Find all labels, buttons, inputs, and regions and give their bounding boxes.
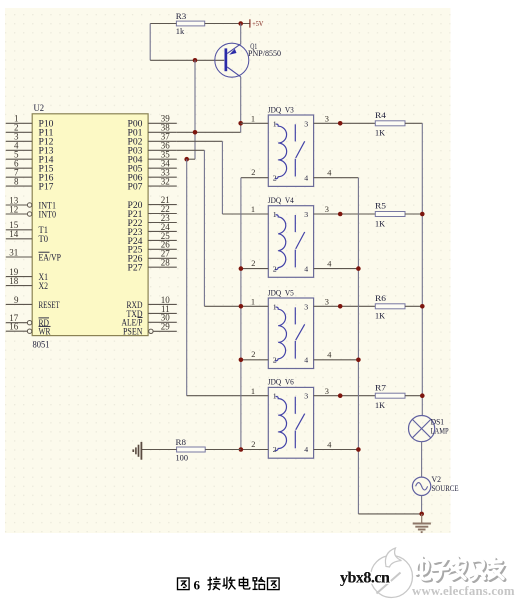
wire relay V5 pin 1 xyxy=(204,305,268,307)
U2 pin 14 stub wire xyxy=(6,238,32,240)
junction right bus at R5 xyxy=(420,212,425,217)
U2 pin 26 stub wire xyxy=(148,248,177,250)
svg-text:R4: R4 xyxy=(375,110,387,120)
U2 pin 27 stub wire xyxy=(148,257,177,259)
lamp DS1 X xyxy=(412,419,430,437)
caption char 收 xyxy=(223,577,236,590)
power +5V bar xyxy=(249,19,251,27)
relay V3 switch contact top xyxy=(294,124,296,141)
U2 pin 21 stub wire xyxy=(148,204,177,206)
relay V5 pin 3 wire xyxy=(314,305,376,307)
svg-text:3: 3 xyxy=(304,210,308,219)
svg-text:www.elecfans.com: www.elecfans.com xyxy=(412,584,515,598)
wire P04 net vertical down to relay V6 pin 1 xyxy=(186,159,188,396)
wire P01 branch vertical up to V3 pin1 junction xyxy=(240,123,242,132)
U2 pin 18 stub wire xyxy=(6,285,32,287)
ground symbol (left, signal ground) xyxy=(133,442,141,460)
U2 pin 7 stub wire xyxy=(6,176,32,178)
U2 pin 1 stub wire xyxy=(6,122,32,124)
wire P03 net extension xyxy=(177,149,205,151)
svg-text:P17: P17 xyxy=(39,183,54,193)
relay V6 switch contact top xyxy=(294,397,296,414)
watermark glyph 3 xyxy=(454,559,466,580)
wire R6 right xyxy=(405,305,422,307)
U2 pin 13 bubble xyxy=(27,203,31,207)
ybx8 logo slash xyxy=(377,573,401,594)
U2 pin 2 stub wire xyxy=(6,131,32,133)
wire right bus vertical xyxy=(421,123,423,415)
svg-text:3: 3 xyxy=(304,392,308,401)
svg-text:1k: 1k xyxy=(176,26,185,36)
relay V3 box xyxy=(268,115,313,186)
U2 pin 38 stub wire xyxy=(148,131,177,133)
svg-text:2: 2 xyxy=(273,445,277,454)
relay V6 pin 4 wire xyxy=(314,449,359,451)
svg-text:2: 2 xyxy=(251,350,255,359)
svg-text:29: 29 xyxy=(161,322,171,332)
svg-text:X2: X2 xyxy=(39,282,49,292)
U2 pin 11 stub wire xyxy=(148,312,177,314)
watermark glyph 2 xyxy=(434,562,449,581)
svg-text:3: 3 xyxy=(325,114,329,123)
wire coil-return bus vertical xyxy=(240,178,242,450)
wire ground to R8 xyxy=(142,449,177,451)
svg-text:1K: 1K xyxy=(375,128,386,138)
relay V3 switch blade xyxy=(296,141,305,158)
source V2 sine xyxy=(416,483,428,490)
wire bottom horizontal to ground node xyxy=(358,513,421,515)
svg-text:R8: R8 xyxy=(176,437,187,447)
relay V5 box xyxy=(268,298,313,369)
wire R8 to V6 pin 2 junction xyxy=(205,449,241,451)
junction pin4 bus at V6 xyxy=(356,447,361,452)
junction at +5V / Q1 emitter xyxy=(238,21,243,26)
wire source to ground node xyxy=(421,496,423,514)
relay V5 switch blade xyxy=(296,324,305,340)
relay V3 pin 3 wire xyxy=(314,122,376,124)
svg-text:1: 1 xyxy=(273,392,277,401)
source V2 circle xyxy=(412,477,430,495)
svg-text:1: 1 xyxy=(251,297,255,306)
junction pin4 bus at V4 xyxy=(356,266,361,271)
svg-text:1: 1 xyxy=(273,302,277,311)
svg-text:P27: P27 xyxy=(128,264,143,274)
wire loop down left side xyxy=(149,24,151,61)
resistor R3 body xyxy=(176,21,204,26)
svg-text:1: 1 xyxy=(273,119,277,128)
svg-text:1: 1 xyxy=(251,114,255,123)
U2 pin 15 stub wire xyxy=(6,229,32,231)
IC U2 8051 body xyxy=(32,114,148,336)
svg-text:LAMP: LAMP xyxy=(431,427,449,436)
resistor R4 body xyxy=(375,121,405,126)
svg-text:WR: WR xyxy=(39,328,52,338)
U2 pin 24 stub wire xyxy=(148,230,177,232)
wire relay V6 pin 2 xyxy=(205,449,268,451)
U2 pin 5 stub wire xyxy=(6,158,32,160)
svg-text:3: 3 xyxy=(304,302,308,311)
relay V4 coil xyxy=(275,215,286,270)
U2 pin 8 stub wire xyxy=(6,185,32,187)
svg-text:JDQ V5: JDQ V5 xyxy=(268,288,294,297)
relay V4 switch contact bottom xyxy=(294,250,296,268)
junction bus at V6 pin 2 xyxy=(239,447,244,452)
wire P03 net vertical down to relay V5 pin 1 xyxy=(203,150,205,306)
Q1 collector diagonal xyxy=(227,67,241,77)
svg-text:28: 28 xyxy=(161,258,171,268)
U2 pin 36 stub wire xyxy=(148,149,177,151)
svg-text:16: 16 xyxy=(9,322,19,332)
U2 pin 25 stub wire xyxy=(148,239,177,241)
relay V6 switch contact bottom xyxy=(294,431,296,449)
Q1 emitter diagonal xyxy=(227,44,241,54)
relay V5 pin 4 wire xyxy=(314,359,359,361)
svg-text:3: 3 xyxy=(325,205,329,214)
U2 pin 37 stub wire xyxy=(148,140,177,142)
svg-text:2: 2 xyxy=(251,259,255,268)
U2 pin 39 stub wire xyxy=(148,122,177,124)
U2 pin 29 bubble xyxy=(149,329,153,333)
svg-text:P07: P07 xyxy=(128,183,143,193)
wire P01 net extension to x241 xyxy=(177,131,241,133)
wire corner link to P04 stub xyxy=(187,158,195,160)
svg-text:EA/VP: EA/VP xyxy=(39,253,62,263)
svg-text:4: 4 xyxy=(304,445,308,454)
relay V6 switch blade xyxy=(296,414,305,430)
wire R5 right xyxy=(405,213,422,215)
svg-text:2: 2 xyxy=(273,356,277,365)
svg-text:SOURCE: SOURCE xyxy=(432,484,459,493)
relay V3 coil xyxy=(275,124,287,179)
U2 pin 19 stub wire xyxy=(6,276,32,278)
wire Q1 collector down to relay V3 pin 1 xyxy=(240,77,242,124)
junction Q1 base / P01 net xyxy=(193,58,198,63)
svg-text:100: 100 xyxy=(176,452,189,462)
junction bus at V5 pin 2 xyxy=(239,358,244,363)
wire R4 right xyxy=(405,122,422,124)
relay V6 pin 3 wire xyxy=(314,395,376,397)
U2 pin 12 bubble xyxy=(27,212,31,216)
wire relay V6 pin 1 xyxy=(187,395,269,397)
svg-text:T0: T0 xyxy=(39,235,49,245)
svg-text:1: 1 xyxy=(251,205,255,214)
U2 pin 4 stub wire xyxy=(6,149,32,151)
resistor R7 body xyxy=(375,393,405,398)
caption char 电 xyxy=(239,577,250,589)
svg-text:3: 3 xyxy=(325,297,329,306)
U2 pin 32 stub wire xyxy=(148,185,177,187)
U2 pin 16 stub wire xyxy=(6,330,28,332)
U2 pin 13 stub wire xyxy=(6,204,28,206)
U2 pin 30 stub wire xyxy=(148,321,177,323)
svg-text:18: 18 xyxy=(9,276,19,286)
relay V5 coil xyxy=(275,307,286,361)
wire Q1 emitter up to +5V xyxy=(240,24,242,45)
wire P02 net extension xyxy=(177,140,223,142)
earth ground symbol (bottom right) xyxy=(413,514,431,532)
wire relay V4 pin 2 xyxy=(241,268,268,270)
svg-text:9: 9 xyxy=(14,295,19,305)
wire relay V4 pin 1 xyxy=(222,213,268,215)
svg-text:R6: R6 xyxy=(375,293,387,303)
U2 pin 31 stub wire xyxy=(6,256,32,258)
svg-text:4: 4 xyxy=(304,264,308,273)
junction at ground node xyxy=(419,512,424,517)
U2 pin 29 stub wire xyxy=(153,330,177,332)
relay V4 switch contact top xyxy=(294,215,296,232)
relay V5 switch contact bottom xyxy=(294,341,296,359)
svg-text:3: 3 xyxy=(304,119,308,128)
wire lamp to source xyxy=(421,442,423,477)
caption char 接 xyxy=(208,577,221,590)
svg-text:12: 12 xyxy=(9,204,18,214)
resistor R5 body xyxy=(375,212,405,217)
U2 pin 6 stub wire xyxy=(6,167,32,169)
svg-text:2: 2 xyxy=(273,173,277,182)
svg-text:1: 1 xyxy=(251,387,255,396)
wire Q1 base horizontal xyxy=(150,59,224,61)
U2 pin 33 stub wire xyxy=(148,176,177,178)
U2 pin 12 stub wire xyxy=(6,213,28,215)
svg-text:JDQ V6: JDQ V6 xyxy=(268,378,294,387)
relay V3 pin 4 wire xyxy=(314,177,359,179)
junction on V4 pin 3 wire xyxy=(338,212,343,217)
caption char 图 xyxy=(268,578,280,590)
relay V6 box xyxy=(268,387,313,458)
wire relay V3 pin 2 xyxy=(241,177,268,179)
svg-text:INT0: INT0 xyxy=(39,210,57,220)
junction at V3 pin 1 / Q1 collector xyxy=(238,121,243,126)
svg-text:U2: U2 xyxy=(34,104,45,114)
relay V4 pin 4 wire xyxy=(314,268,359,270)
svg-text:3: 3 xyxy=(325,387,329,396)
svg-text:4: 4 xyxy=(304,356,308,365)
U2 pin 17 stub wire xyxy=(6,322,28,324)
watermark glyph 4 xyxy=(472,561,486,581)
ybx8 logo dot xyxy=(379,574,385,580)
svg-text:1K: 1K xyxy=(375,311,386,321)
svg-text:8051: 8051 xyxy=(33,341,50,351)
watermark glyph 5 xyxy=(490,560,504,580)
svg-text:PNP/8550: PNP/8550 xyxy=(248,49,281,58)
U2 pin 3 stub wire xyxy=(6,140,32,142)
svg-text:1K: 1K xyxy=(375,400,386,410)
wire contact bus vertical (pins 4) xyxy=(357,178,359,514)
svg-text:2: 2 xyxy=(251,440,255,449)
svg-text:JDQ V4: JDQ V4 xyxy=(268,196,294,205)
U2 pin 9 stub wire xyxy=(6,303,32,305)
relay V4 box xyxy=(268,206,313,278)
svg-text:RESET: RESET xyxy=(39,301,60,311)
svg-text:2: 2 xyxy=(273,264,277,273)
relay V6 coil xyxy=(275,396,287,450)
Q1 emitter arrow (PNP) xyxy=(229,49,236,55)
wire R3 left to loop corner xyxy=(150,23,176,25)
svg-text:1: 1 xyxy=(273,210,277,219)
svg-text:R5: R5 xyxy=(375,201,387,211)
junction on P04 stub xyxy=(184,157,189,162)
U2 pin 28 stub wire xyxy=(148,266,177,268)
svg-text:6: 6 xyxy=(194,578,201,593)
U2 pin 23 stub wire xyxy=(148,222,177,224)
wire R3 right to +5V xyxy=(205,23,250,25)
wire relay V5 pin 2 xyxy=(241,359,268,361)
svg-text:8: 8 xyxy=(14,177,19,187)
junction bus at V5 pin 1 xyxy=(239,304,244,309)
svg-text:JDQ V3: JDQ V3 xyxy=(268,105,294,114)
transistor Q1 circle xyxy=(215,43,249,77)
svg-text:4: 4 xyxy=(304,173,308,182)
relay V4 switch blade xyxy=(296,232,305,249)
svg-text:R3: R3 xyxy=(176,11,187,21)
junction bus at V4 pin 2 xyxy=(239,266,244,271)
svg-text:PSEN: PSEN xyxy=(123,328,143,338)
junction pin4 bus at V5 xyxy=(356,358,361,363)
junction right bus at R6 xyxy=(420,304,425,309)
svg-text:14: 14 xyxy=(9,229,19,239)
watermark glyph 1 xyxy=(418,559,431,581)
junction on V3 pin 3 wire xyxy=(338,121,343,126)
svg-text:1K: 1K xyxy=(375,218,386,228)
junction right bus at R7 xyxy=(420,393,425,398)
caption char 路 xyxy=(253,577,266,590)
wire relay V3 pin 1 xyxy=(241,122,269,124)
U2 pin 16 bubble xyxy=(27,329,31,333)
resistor R6 body xyxy=(375,304,405,309)
resistor R8 body xyxy=(177,447,206,452)
U2 pin 10 stub wire xyxy=(148,303,177,305)
svg-text:R7: R7 xyxy=(375,382,387,392)
relay V3 switch contact bottom xyxy=(294,159,296,177)
svg-text:DS1: DS1 xyxy=(431,417,445,426)
wire vertical from Q1 base down to P04 row xyxy=(194,60,196,159)
svg-text:V2: V2 xyxy=(432,475,442,484)
relay V4 pin 3 wire xyxy=(314,213,376,215)
wire R7 right xyxy=(405,395,422,397)
svg-text:2: 2 xyxy=(251,168,255,177)
ybx8 logo swoosh xyxy=(385,548,401,567)
U2 pin 35 stub wire xyxy=(148,158,177,160)
U2 pin 34 stub wire xyxy=(148,167,177,169)
wire P02 net vertical down to relay V4 pin 1 xyxy=(221,141,223,214)
junction on V5 pin 3 wire xyxy=(338,304,343,309)
schematic background xyxy=(5,8,451,533)
svg-text:+5V: +5V xyxy=(252,19,264,28)
relay V5 switch contact top xyxy=(294,307,296,324)
U2 pin 22 stub wire xyxy=(148,213,177,215)
Q1 base bar xyxy=(225,48,228,71)
svg-text:ybx8.cn: ybx8.cn xyxy=(340,570,390,587)
ybx8 logo circle xyxy=(371,556,413,598)
svg-text:32: 32 xyxy=(161,177,170,187)
caption char 图 xyxy=(178,578,190,590)
junction on V6 pin 3 wire xyxy=(338,393,343,398)
lamp DS1 circle xyxy=(409,416,435,442)
svg-text:31: 31 xyxy=(9,247,18,257)
junction P01 crossing xyxy=(193,130,198,135)
U2 pin 17 bubble xyxy=(27,321,31,325)
